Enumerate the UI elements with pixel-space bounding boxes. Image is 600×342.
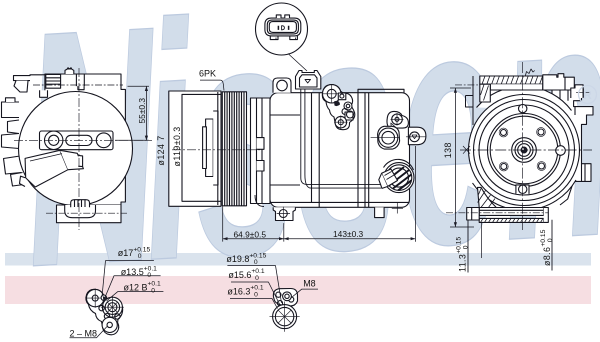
- right end column: [544, 208, 549, 223]
- svg-text:R: R: [583, 88, 592, 102]
- pink band: [5, 276, 591, 304]
- bracket blob 1: [322, 85, 354, 130]
- center boss: [76, 74, 84, 86]
- center slot plate: [40, 131, 114, 150]
- plate inner ring: [490, 116, 558, 184]
- top bolt ear: [273, 78, 291, 93]
- small circle: [101, 295, 106, 300]
- registered mark: [579, 86, 597, 104]
- hub stack: [206, 119, 214, 177]
- bottom bracket band: [479, 208, 544, 216]
- small bolt circles: [99, 305, 104, 310]
- boss outline: [273, 289, 297, 307]
- discharge port: [384, 159, 414, 170]
- svg-text:6PK: 6PK: [199, 68, 216, 78]
- svg-text:2 – M8: 2 – M8: [70, 329, 98, 339]
- big circle: [19, 92, 133, 206]
- left low bracket: [40, 90, 48, 97]
- ear outline: [86, 289, 123, 334]
- bottom hatched foot: [479, 218, 544, 222]
- svg-text:138: 138: [443, 142, 453, 158]
- top axis dashed: [33, 84, 123, 86]
- corner cross mark: [392, 203, 403, 214]
- svg-text:143±0.3: 143±0.3: [333, 229, 364, 239]
- left bracket: [466, 76, 474, 125]
- vertical centerline: [78, 68, 80, 230]
- lower lobe: [102, 317, 117, 332]
- dim 8.6 ext: [551, 220, 553, 271]
- main body: [270, 93, 410, 208]
- right ear: [408, 127, 426, 145]
- bottom right tab: [375, 207, 385, 217]
- upper-left lobe: [87, 289, 104, 306]
- suction port flange: [378, 126, 400, 149]
- rim web lines: [218, 92, 223, 206]
- dim 143: [284, 146, 416, 242]
- crosshairs: [460, 149, 592, 151]
- leaders: [227, 266, 281, 309]
- top right blocks: [543, 74, 575, 90]
- bottom foot: [57, 205, 122, 223]
- pulley inner rect: [182, 94, 221, 201]
- housing circle arcs: [477, 86, 572, 110]
- 6PK leader: [200, 80, 224, 90]
- bottom boss with ribs: [71, 200, 90, 208]
- pulley centerline: [172, 149, 262, 151]
- small circles on boss: [276, 292, 281, 297]
- svg-text:55±0.3: 55±0.3: [137, 98, 147, 124]
- 6PK rib band: [222, 92, 246, 206]
- bottom square boss + hole: [516, 185, 529, 194]
- dim 55 ext+line: [115, 86, 149, 140]
- left bolt boss: [467, 208, 480, 221]
- wire conduit: [301, 89, 381, 184]
- svg-text:ø124 7: ø124 7: [156, 135, 166, 165]
- bottom lug: [273, 207, 295, 220]
- blue band: [5, 253, 591, 266]
- suction assembly upper blob: [387, 111, 408, 128]
- horizontal centerline: [14, 139, 152, 141]
- svg-text:M8: M8: [303, 278, 316, 288]
- top-left tab: [14, 75, 46, 81]
- center hole rings: [102, 297, 122, 317]
- weld squiggle: [525, 69, 534, 76]
- top hatched bar: [480, 76, 543, 84]
- small side circles on centerline: [556, 146, 566, 156]
- discharge stub: [382, 169, 398, 187]
- M8 leader: [292, 289, 319, 297]
- grill block: [46, 75, 61, 89]
- dim 138: [450, 88, 474, 227]
- hub: [512, 138, 537, 163]
- svg-text:64.9±0.5: 64.9±0.5: [234, 229, 267, 239]
- suction fitting: [25, 150, 68, 187]
- connector plug on body: [296, 71, 321, 90]
- bolt holes: [519, 104, 527, 112]
- foot axis dashed: [46, 212, 127, 214]
- M8 threaded hole: [283, 292, 292, 301]
- dim 11.3 ext: [467, 220, 469, 273]
- clutch circles: [469, 95, 580, 206]
- top raised edge: [358, 89, 404, 92]
- bottom hatched wedge left: [478, 187, 497, 207]
- big hole rings: [273, 305, 297, 329]
- dim 64.9: [223, 206, 284, 241]
- leaders: [102, 261, 163, 301]
- svg-text:ø119±0.3: ø119±0.3: [172, 126, 182, 166]
- front housing: [251, 98, 271, 204]
- body top section: [45, 74, 126, 205]
- body internal lines: [312, 93, 369, 208]
- cap bump: [65, 69, 74, 74]
- left side tabs: [2, 102, 20, 118]
- 2-M8 leader: [70, 327, 108, 338]
- pulley outer rect: [169, 91, 221, 206]
- body behind right: [552, 86, 593, 206]
